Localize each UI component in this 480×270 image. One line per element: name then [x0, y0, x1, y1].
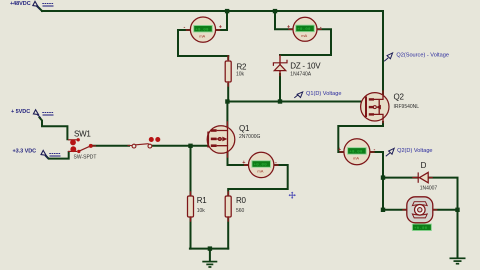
- svg-text:R2: R2: [237, 62, 248, 71]
- svg-text:1N4007: 1N4007: [420, 186, 438, 192]
- svg-text:+0.00: +0.00: [254, 164, 268, 168]
- svg-text:mA: mA: [353, 156, 359, 161]
- svg-text:1N4740A: 1N4740A: [290, 72, 312, 78]
- svg-text:-: -: [184, 25, 186, 31]
- svg-text:560: 560: [236, 208, 245, 214]
- svg-text:+ 5VDC: + 5VDC: [11, 109, 30, 115]
- svg-text:Q2(D) Voltage: Q2(D) Voltage: [397, 148, 432, 154]
- svg-text:-: -: [374, 147, 376, 153]
- svg-text:+0.00: +0.00: [195, 28, 209, 32]
- svg-text:10k: 10k: [197, 208, 206, 214]
- svg-text:2N7000G: 2N7000G: [239, 134, 261, 140]
- svg-text:+: +: [338, 147, 341, 153]
- svg-text:SW-SPDT: SW-SPDT: [74, 155, 97, 161]
- svg-text:mA: mA: [257, 169, 263, 174]
- svg-text:IRF9540NL: IRF9540NL: [394, 104, 420, 110]
- svg-text:-: -: [275, 160, 277, 166]
- svg-text:SW1: SW1: [74, 130, 91, 139]
- svg-text:Q2: Q2: [394, 93, 405, 102]
- svg-text:+48VDC: +48VDC: [10, 1, 31, 7]
- svg-text:DZ - 10V: DZ - 10V: [290, 61, 321, 70]
- svg-text:+: +: [242, 160, 245, 166]
- svg-text:+0.00: +0.00: [297, 28, 311, 32]
- svg-text:Q1: Q1: [239, 124, 250, 133]
- svg-text:Q1(D) Voltage: Q1(D) Voltage: [306, 91, 341, 97]
- svg-text:+: +: [287, 24, 290, 30]
- svg-text:10k: 10k: [236, 72, 245, 78]
- svg-text:R0: R0: [236, 196, 247, 205]
- svg-text:+0.00: +0.00: [349, 151, 363, 155]
- svg-text:-: -: [320, 24, 322, 30]
- svg-text:+: +: [219, 25, 222, 31]
- svg-text:Q2(Source) - Voltage: Q2(Source) - Voltage: [396, 53, 449, 59]
- svg-text:mA: mA: [199, 33, 205, 38]
- svg-text:+3.3 VDC: +3.3 VDC: [13, 148, 37, 154]
- svg-text:D: D: [421, 161, 427, 170]
- svg-text:+0.00: +0.00: [414, 227, 428, 231]
- svg-text:R1: R1: [197, 196, 208, 205]
- svg-text:mA: mA: [301, 33, 307, 38]
